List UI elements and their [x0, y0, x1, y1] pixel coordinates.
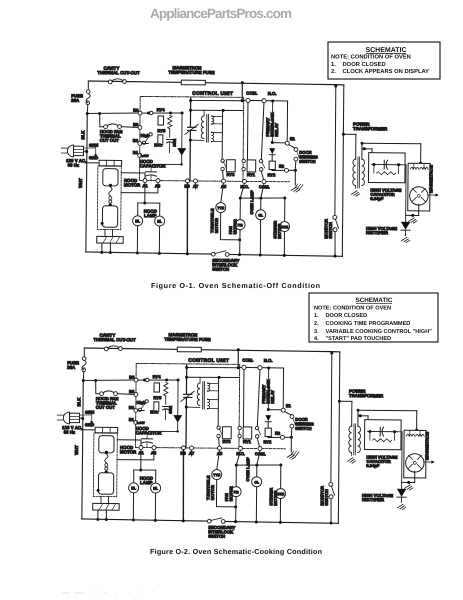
svg-text:B3: B3 [133, 138, 139, 143]
svg-text:GRN: GRN [89, 143, 98, 148]
svg-text:WHT: WHT [78, 178, 83, 188]
svg-text:SWITCH: SWITCH [299, 159, 315, 164]
svg-text:MAGNETRON: MAGNETRON [428, 165, 433, 193]
svg-text:DOOR CLOSED: DOOR CLOSED [326, 313, 368, 319]
svg-text:SWITCH: SWITCH [328, 222, 333, 238]
svg-text:A1: A1 [142, 183, 148, 188]
svg-text:HL: HL [135, 219, 141, 223]
svg-text:RY5: RY5 [157, 128, 166, 133]
svg-text:AppliancePartsPros.com: AppliancePartsPros.com [150, 6, 292, 21]
svg-text:NOTE: CONDITION OF OVEN: NOTE: CONDITION OF OVEN [314, 305, 391, 311]
svg-text:GND: GND [89, 155, 98, 160]
svg-text:HL: HL [157, 220, 163, 224]
svg-text:60 Hz: 60 Hz [68, 163, 80, 168]
svg-text:20A: 20A [71, 98, 80, 103]
svg-text:A3: A3 [155, 183, 161, 188]
svg-text:B6: B6 [133, 122, 139, 127]
svg-text:SWITCH: SWITCH [212, 267, 229, 272]
svg-text:2.: 2. [331, 68, 336, 75]
svg-text:MOTOR: MOTOR [124, 182, 141, 187]
svg-text:"START" PAD TOUCHED: "START" PAD TOUCHED [326, 336, 392, 342]
svg-text:OVEN LAMP: OVEN LAMP [249, 190, 254, 214]
svg-text:N.O.: N.O. [268, 91, 277, 96]
svg-text:SSR: SSR [173, 139, 177, 147]
svg-text:E2: E2 [279, 164, 285, 169]
svg-text:TTM: TTM [217, 206, 224, 210]
svg-text:VARIABLE COOKING CONTROL "HIGH: VARIABLE COOKING CONTROL "HIGH" [326, 329, 433, 335]
svg-text:2.: 2. [314, 321, 319, 327]
svg-text:RY1: RY1 [247, 172, 256, 177]
svg-text:RY3: RY3 [227, 172, 236, 177]
svg-text:SCHEMATIC: SCHEMATIC [365, 47, 406, 54]
svg-text:4.: 4. [314, 336, 319, 342]
svg-text:B0: B0 [133, 108, 139, 113]
svg-text:MOTOR: MOTOR [277, 224, 282, 239]
svg-text:B1: B1 [133, 150, 139, 155]
svg-text:1.: 1. [331, 62, 336, 68]
svg-text:COM.: COM. [246, 91, 257, 96]
svg-text:TRANSFORMER: TRANSFORMER [353, 126, 388, 131]
svg-text:E1: E1 [290, 136, 296, 141]
svg-text:CONTROL UNIT: CONTROL UNIT [192, 91, 233, 97]
svg-text:OL: OL [258, 213, 263, 217]
svg-text:1.: 1. [314, 313, 319, 319]
svg-text:CAPACITOR: CAPACITOR [140, 163, 167, 168]
svg-text:N.O.: N.O. [240, 184, 249, 189]
svg-text:RELAY: RELAY [274, 123, 279, 137]
svg-text:MOTOR: MOTOR [214, 218, 219, 233]
svg-text:Figure O-2. Oven Schematic-Coo: Figure O-2. Oven Schematic-Cooking Condi… [150, 547, 322, 556]
svg-text:LAMP: LAMP [144, 213, 157, 218]
svg-text:DOOR CLOSED: DOOR CLOSED [343, 61, 386, 68]
svg-text:0.94µF: 0.94µF [370, 196, 384, 201]
svg-text:FM: FM [238, 223, 243, 227]
svg-text:TEMPERATURE FUSE: TEMPERATURE FUSE [168, 70, 214, 75]
svg-text:RECTIFIER: RECTIFIER [366, 230, 388, 235]
svg-text:THERMAL CUT-OUT: THERMAL CUT-OUT [97, 70, 140, 75]
svg-text:MOTOR: MOTOR [232, 219, 237, 234]
svg-text:NOTE: CONDITION OF OVEN: NOTE: CONDITION OF OVEN [331, 54, 411, 61]
svg-text:STM: STM [281, 225, 288, 229]
svg-text:Figure O-1. Oven Schematic-Off: Figure O-1. Oven Schematic-Off Condition [151, 281, 320, 290]
svg-text:A5: A5 [221, 184, 227, 189]
svg-text:RY2: RY2 [268, 172, 277, 177]
svg-text:COOKING TIME PROGRAMMED: COOKING TIME PROGRAMMED [326, 321, 411, 327]
svg-text:CUT OUT: CUT OUT [100, 138, 119, 143]
svg-text:N.O.: N.O. [154, 142, 162, 147]
svg-text:CLOCK APPEARS ON DISPLAY: CLOCK APPEARS ON DISPLAY [343, 68, 430, 75]
svg-text:RY4: RY4 [157, 107, 166, 112]
svg-text:BLK: BLK [80, 130, 85, 140]
svg-text:COM.: COM. [259, 184, 270, 189]
svg-text:3.: 3. [314, 329, 319, 335]
